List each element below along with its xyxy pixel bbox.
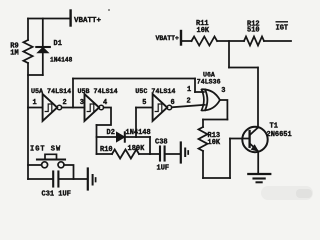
wire collector vertical — [257, 68, 259, 128]
svg-text:10K: 10K — [208, 139, 221, 147]
svg-text:VBATT+: VBATT+ — [156, 35, 180, 42]
transistor T1 emitter stroke — [250, 144, 258, 152]
svg-text:U5A 74LS14: U5A 74LS14 — [31, 88, 71, 96]
resistor R13 — [199, 127, 208, 151]
wire U6A pin1 — [195, 91, 204, 93]
switch contact left — [42, 162, 48, 168]
inverter U5B — [85, 94, 100, 121]
wire top-left horizontal to VBATT+ — [28, 18, 70, 20]
svg-text:U5B 74LS14: U5B 74LS14 — [78, 88, 118, 96]
svg-text:5: 5 — [142, 99, 146, 107]
wire base of T1 — [230, 138, 249, 140]
svg-text:1N4148: 1N4148 — [50, 57, 73, 64]
wire U5B output loop down to D2/R10 — [97, 108, 112, 126]
wire to R13 top — [203, 119, 227, 121]
wire junction drop — [228, 41, 230, 68]
emitter arrow — [251, 145, 258, 152]
inverter U5C — [153, 94, 168, 121]
diode D1 — [36, 46, 50, 48]
wire loop bottom — [203, 177, 230, 179]
wire left vertical upper (top to R9) — [27, 19, 29, 41]
gate U6A 74LS36 — [202, 90, 204, 111]
svg-text:U5C 74LS14: U5C 74LS14 — [135, 88, 175, 96]
switch contact right — [58, 162, 64, 168]
wire over to collector — [229, 67, 258, 69]
wire R13 top stub — [202, 120, 204, 128]
wire bottom rail left — [28, 178, 52, 180]
wire junction R9/D1 — [28, 74, 43, 76]
svg-text:U6A: U6A — [203, 72, 215, 79]
ground under T1 — [248, 173, 270, 175]
wire left vertical (R9 bottom down to bottom rail) — [27, 63, 29, 179]
wire network left edge — [96, 125, 98, 154]
wire top run to U6A — [73, 78, 195, 80]
wire U5C output to U6A pin2 — [172, 105, 205, 108]
svg-text:D2: D2 — [107, 129, 115, 137]
scan smudge bottom-right — [261, 186, 313, 200]
svg-text:10K: 10K — [197, 27, 210, 35]
wire U5A input — [28, 107, 43, 109]
capacitor C38 — [159, 147, 161, 161]
wire drop to U6A pin1 — [194, 79, 196, 93]
ground (right of C38) — [180, 143, 182, 163]
resistor R11 — [192, 37, 218, 46]
wire network right edge — [149, 137, 151, 154]
switch IGT SW bar — [37, 158, 65, 160]
svg-text:3: 3 — [80, 99, 84, 107]
wire to left contact — [28, 164, 41, 166]
svg-text:6: 6 — [171, 99, 175, 107]
svg-text:1: 1 — [33, 99, 37, 107]
scan speck — [108, 9, 110, 11]
svg-text:1UF: 1UF — [157, 165, 170, 173]
wire to C38 — [150, 153, 159, 155]
overline of IGT — [276, 21, 289, 23]
transistor T1 base bar — [248, 131, 250, 147]
node A vertical riser — [72, 79, 74, 108]
wire U5C input stub down to network — [135, 108, 137, 138]
switch plunger — [45, 154, 57, 159]
wire R10 branch left — [97, 153, 113, 155]
ground (right of C31) — [87, 169, 89, 190]
svg-text:IGT SW: IGT SW — [30, 146, 61, 154]
svg-text:C31 1UF: C31 1UF — [42, 191, 71, 199]
svg-text:2N6651: 2N6651 — [267, 131, 292, 139]
svg-text:2: 2 — [63, 99, 67, 107]
svg-text:1: 1 — [187, 86, 191, 94]
wire U5C input — [136, 107, 153, 109]
wire loop right vertical — [229, 139, 231, 179]
wire R10 branch right — [139, 153, 150, 155]
svg-text:180K: 180K — [128, 145, 146, 153]
wire R11 to R12 with junction — [217, 40, 244, 42]
svg-text:D1: D1 — [54, 40, 62, 48]
wire diode branch — [97, 136, 151, 138]
svg-text:3: 3 — [221, 87, 225, 95]
wire D1 branch bottom — [42, 53, 44, 75]
svg-text:C38: C38 — [155, 139, 168, 147]
wire C38 to ground — [166, 153, 180, 155]
wire U5A output to U5B input — [62, 107, 85, 109]
inverter U5A — [43, 94, 58, 121]
svg-text:T1: T1 — [270, 123, 278, 131]
capacitor C31 — [52, 172, 54, 187]
transistor T1 circle — [242, 127, 267, 152]
svg-text:74LS36: 74LS36 — [197, 79, 221, 86]
svg-text:1N4148: 1N4148 — [126, 129, 151, 137]
svg-text:1M: 1M — [10, 50, 18, 58]
svg-text:510: 510 — [247, 27, 260, 35]
svg-text:VBATT+: VBATT+ — [74, 17, 102, 25]
transistor T1 collector stroke — [250, 127, 258, 135]
svg-text:2: 2 — [187, 98, 191, 106]
resistor R10 — [112, 150, 139, 159]
wire R12 to IGT — [264, 40, 291, 42]
power symbol VBATT+ left tick — [69, 11, 71, 26]
wire emitter down — [257, 152, 259, 174]
svg-text:IGT: IGT — [276, 25, 289, 33]
resistor R9 — [23, 40, 32, 63]
power symbol VBATT+ right tick — [180, 31, 182, 45]
wire D1 branch top — [42, 19, 44, 48]
svg-text:R10: R10 — [100, 146, 113, 154]
resistor R12 — [244, 37, 264, 46]
wire U6A output — [220, 100, 228, 120]
wire R13 bottom down — [202, 151, 204, 178]
wire VBATT+ to R11 — [182, 40, 192, 42]
wire bottom rail right — [59, 178, 86, 180]
diode D2 — [117, 132, 125, 141]
wire from right contact — [64, 165, 73, 179]
svg-text:4: 4 — [103, 99, 107, 107]
